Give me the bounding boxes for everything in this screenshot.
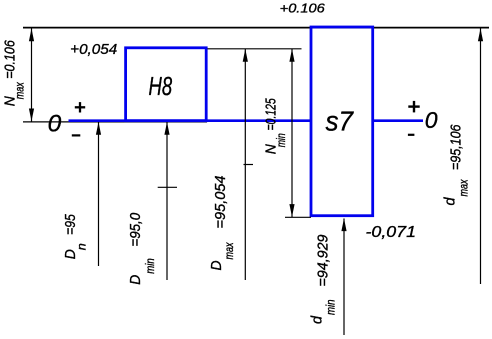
svg-text:+0.106: +0.106 <box>280 0 326 15</box>
dimension line dmax <box>480 28 482 284</box>
minus sign left <box>72 134 81 136</box>
svg-text:Nmin =0.125: Nmin =0.125 <box>263 98 288 155</box>
upper deviation line (+0.106 level) <box>23 27 489 29</box>
tick on Dmax line <box>244 164 254 166</box>
dimension line Dmin <box>166 122 168 280</box>
svg-text:Nmax =0.106: Nmax =0.106 <box>3 39 27 106</box>
svg-text:s7: s7 <box>326 105 355 136</box>
zero line (blue, right of s7) <box>372 119 423 122</box>
dimension line Dmax <box>244 49 246 280</box>
zero line (black thin) <box>23 121 207 123</box>
svg-text:+0,054: +0,054 <box>70 41 117 58</box>
tolerance zone s7 <box>311 27 373 216</box>
dimension line Dn <box>98 122 100 266</box>
dimension line Nmax <box>31 28 33 122</box>
extension line from s7 bottom <box>285 216 311 218</box>
svg-text:0: 0 <box>425 107 438 133</box>
dimension line dmin <box>343 219 345 336</box>
tolerance zone H8 <box>126 48 207 121</box>
svg-text:Dn =95: Dn =95 <box>63 213 89 259</box>
svg-text:Dmax =95,054: Dmax =95,054 <box>209 176 236 271</box>
svg-text:H8: H8 <box>149 73 173 101</box>
minus sign right <box>408 134 415 136</box>
dimension line Nmin <box>291 49 293 217</box>
svg-text:dmin =94,929: dmin =94,929 <box>310 235 338 325</box>
svg-text:-0,071: -0,071 <box>366 224 417 241</box>
tick on Dmin line <box>158 186 177 188</box>
plus sign right <box>408 105 419 107</box>
svg-text:Dmin =95,0: Dmin =95,0 <box>128 213 157 285</box>
zero line (blue, left of s7) <box>69 119 313 122</box>
svg-text:0: 0 <box>48 110 62 137</box>
plus sign left <box>75 106 85 108</box>
extension line from H8 top <box>208 48 302 50</box>
svg-text:dmax =95,106: dmax =95,106 <box>443 124 471 206</box>
